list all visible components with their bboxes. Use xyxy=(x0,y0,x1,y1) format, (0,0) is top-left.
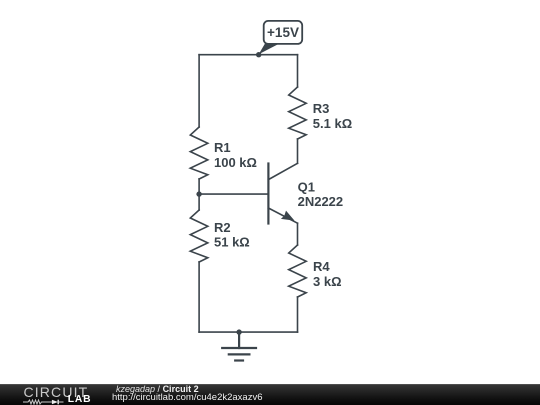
svg-text:Q1: Q1 xyxy=(298,180,315,195)
logo circuit glyph (resistor + diode) xyxy=(23,399,65,405)
label R2 xyxy=(214,220,231,235)
svg-text:100 kΩ: 100 kΩ xyxy=(214,155,257,170)
transistor Q1 xyxy=(268,163,297,223)
wire: R2 to bottom rail xyxy=(198,262,200,332)
resistor R2 body xyxy=(190,210,208,262)
node: base junction xyxy=(196,191,201,196)
svg-text:R1: R1 xyxy=(214,140,231,155)
svg-text:+15V: +15V xyxy=(267,25,299,40)
label R1 value 100 kOhm xyxy=(214,155,257,170)
wire: R1 to base node xyxy=(198,179,200,194)
wire: Q1 emitter to R4 xyxy=(297,223,299,245)
svg-text:2N2222: 2N2222 xyxy=(298,194,344,209)
wire: right rail V+ to R3 xyxy=(297,55,299,87)
svg-text:R3: R3 xyxy=(313,101,330,116)
label R4 xyxy=(313,259,330,274)
label R4 value 3 kOhm xyxy=(313,274,342,289)
node: ground junction xyxy=(236,329,241,334)
wire: base node to R2 xyxy=(198,194,200,210)
wire: R4 to bottom rail xyxy=(297,297,299,332)
resistor R1 body xyxy=(190,127,208,179)
svg-text:3 kΩ: 3 kΩ xyxy=(313,274,342,289)
wire: R3 to Q1 collector xyxy=(297,139,299,163)
label R3 xyxy=(313,101,330,116)
svg-text:51 kΩ: 51 kΩ xyxy=(214,235,250,250)
label Q1 xyxy=(298,180,315,195)
wire: base node to Q1 base xyxy=(199,193,268,195)
svg-text:R4: R4 xyxy=(313,259,330,274)
label R1 xyxy=(214,140,231,155)
svg-text:R2: R2 xyxy=(214,220,231,235)
wire: left rail V+ to R1 xyxy=(198,55,200,127)
footer url line xyxy=(112,393,263,403)
footer bar xyxy=(0,384,540,405)
label R2 value 51 kOhm xyxy=(214,235,250,250)
ground xyxy=(222,332,256,360)
resistor R3 body xyxy=(289,87,307,139)
node: +15V tap junction xyxy=(256,52,261,57)
resistor R4 body xyxy=(289,245,307,297)
power flag +15V xyxy=(259,21,303,54)
wire: top rail xyxy=(199,54,297,56)
logo CIRCUIT wordmark xyxy=(24,385,89,399)
footer title line xyxy=(116,385,199,394)
label Q1 value 2N2222 xyxy=(298,194,344,209)
label R3 value 5.1 kOhm xyxy=(313,116,352,131)
wire: bottom rail xyxy=(199,331,297,333)
logo LAB xyxy=(68,395,92,405)
svg-text:5.1 kΩ: 5.1 kΩ xyxy=(313,116,352,131)
